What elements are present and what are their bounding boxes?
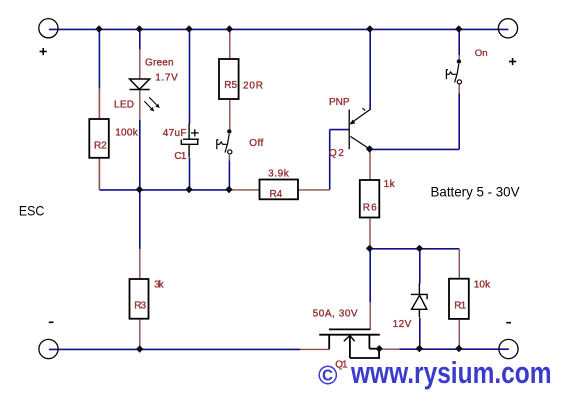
svg-text:Q2: Q2 bbox=[329, 148, 344, 159]
svg-text:R2: R2 bbox=[94, 141, 107, 152]
svg-text:Battery 5 - 30V: Battery 5 - 30V bbox=[431, 183, 521, 199]
svg-text:LED: LED bbox=[114, 100, 134, 111]
svg-text:www.rysium.com: www.rysium.com bbox=[350, 355, 551, 390]
svg-text:3.9k: 3.9k bbox=[268, 169, 290, 180]
svg-text:47uF: 47uF bbox=[163, 128, 187, 139]
svg-text:R4: R4 bbox=[270, 189, 283, 200]
svg-text:50A, 30V: 50A, 30V bbox=[313, 309, 358, 320]
svg-text:©: © bbox=[318, 360, 338, 390]
svg-text:Off: Off bbox=[249, 138, 263, 149]
svg-text:PNP: PNP bbox=[329, 97, 350, 108]
svg-text:On: On bbox=[475, 48, 488, 59]
svg-text:C1: C1 bbox=[174, 151, 186, 162]
svg-text:R5: R5 bbox=[224, 80, 237, 91]
svg-text:12V: 12V bbox=[393, 319, 412, 330]
svg-text:10k: 10k bbox=[474, 280, 491, 291]
svg-text:20R: 20R bbox=[243, 81, 263, 92]
svg-text:R3: R3 bbox=[134, 301, 146, 312]
svg-text:100k: 100k bbox=[115, 128, 139, 139]
svg-text:R6: R6 bbox=[363, 203, 377, 214]
svg-text:1k: 1k bbox=[384, 179, 396, 190]
svg-text:R1: R1 bbox=[454, 300, 466, 311]
svg-text:Green: Green bbox=[145, 58, 174, 69]
svg-text:3k: 3k bbox=[154, 279, 165, 290]
svg-text:ESC: ESC bbox=[19, 203, 45, 219]
svg-text:1.7V: 1.7V bbox=[155, 73, 178, 84]
